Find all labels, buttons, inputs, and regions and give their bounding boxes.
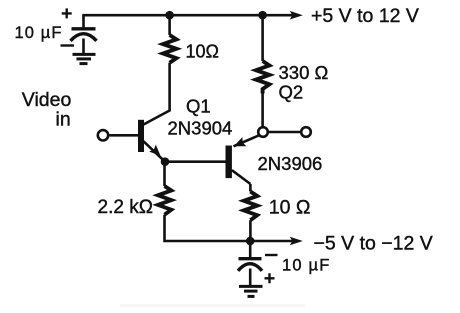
transistor Q1: emitter line <box>144 141 166 161</box>
wire: Q1 emitter down to 2.2k resistor <box>163 162 166 186</box>
wire: 2.2k resistor to bottom rail corner <box>165 215 293 241</box>
wire: input terminal to Q1 base <box>110 134 139 137</box>
arrow: +V rail arrowhead <box>290 11 303 20</box>
capacitor C-in 10uF: curved bottom plate <box>71 34 97 41</box>
wire: capacitor to ground <box>249 269 252 286</box>
capacitor C-in 10uF: plus polarity mark <box>62 8 72 18</box>
svg-text:330 Ω: 330 Ω <box>279 62 329 83</box>
capacitor C-out 10uF: wire from rail down to plate <box>249 241 252 257</box>
node: junction of bottom rail and output capacitor <box>246 237 255 246</box>
svg-text:−5 V to −12 V: −5 V to −12 V <box>314 233 433 255</box>
svg-text:10 µF: 10 µF <box>282 257 331 275</box>
node: junction of rail and 330-ohm resistor <box>258 11 267 20</box>
transistor Q2 2N3906: base bar <box>226 146 232 179</box>
capacitor C-out 10uF: straight top plate <box>239 257 262 260</box>
capacitor C-out 10uF: plus polarity mark <box>265 273 275 283</box>
transistor Q1: input terminal circle <box>98 130 108 140</box>
svg-text:+5 V to 12 V: +5 V to 12 V <box>311 5 419 27</box>
svg-text:Q2: Q2 <box>279 81 304 102</box>
wire: rail junction down to 10-ohm resistor <box>168 15 171 35</box>
resistor 330 ohm: wire from rail junction down <box>261 15 264 61</box>
resistor 330 ohm (Q2 emitter feed) <box>256 61 269 94</box>
svg-text:10 µF: 10 µF <box>15 24 63 42</box>
wire: Q1 emitter to Q2 base <box>165 160 226 163</box>
transistor Q1 2N3904: base bar <box>138 120 144 152</box>
wire: 10-ohm resistor to bottom rail <box>249 220 252 241</box>
transistor Q2: emitter line from circle to bar <box>234 135 260 146</box>
wire: between Q2 terminal circles <box>269 131 301 134</box>
transistor Q2: collector line <box>232 170 251 184</box>
transistor Q2: emitter terminal circle (left) <box>258 127 268 137</box>
resistor 2.2 kohm <box>158 186 171 215</box>
wire: +V top rail <box>82 14 292 17</box>
capacitor C-in 10uF: straight top plate <box>72 27 96 30</box>
wire: 330 ohm to Q2 emitter terminal circle <box>261 94 264 127</box>
capacitor C-out 10uF: minus polarity mark <box>265 254 278 256</box>
wire: Q2 collector down to 10-ohm resistor <box>249 184 252 192</box>
node: junction of rail and 10-ohm resistor <box>165 11 174 20</box>
node: Q1 emitter junction dot <box>161 157 170 166</box>
scan artifact: faint smudge near bottom edge <box>120 304 305 308</box>
resistor 10 ohm (collector load of Q1) <box>163 35 176 63</box>
svg-text:in: in <box>56 108 71 130</box>
svg-text:10 Ω: 10 Ω <box>269 197 311 219</box>
svg-text:2N3904: 2N3904 <box>168 118 233 139</box>
svg-text:Q1: Q1 <box>186 96 211 117</box>
capacitor C-out 10uF: curved bottom plate <box>238 264 262 271</box>
ground (output capacitor) <box>239 286 263 296</box>
svg-text:2.2 kΩ: 2.2 kΩ <box>98 197 153 218</box>
capacitor C-in 10uF: minus polarity mark <box>61 44 75 46</box>
transistor Q2: emitter arrowhead (PNP, pointing in) <box>234 137 247 146</box>
transistor Q1: emitter arrowhead (NPN, pointing out) <box>149 145 160 156</box>
capacitor C-in 10uF: wire from rail down to plate <box>82 15 85 27</box>
svg-text:2N3906: 2N3906 <box>258 153 323 174</box>
arrow: -V rail arrowhead <box>290 237 303 246</box>
wire: resistor to Q1 collector <box>144 63 170 125</box>
ground (input capacitor) <box>73 54 96 63</box>
transistor Q2: output terminal circle (right) <box>301 127 311 137</box>
resistor 10 ohm (Q2 collector load) <box>244 192 257 221</box>
svg-text:10Ω: 10Ω <box>186 41 219 61</box>
wire: capacitor to ground <box>82 39 85 54</box>
